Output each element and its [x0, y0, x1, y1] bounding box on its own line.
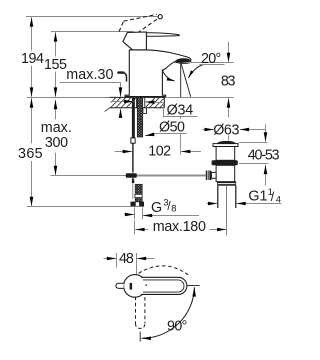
plan view small dot [145, 284, 147, 286]
svg-text:G1: G1 [248, 189, 267, 205]
waste side knob (knurled) [206, 171, 212, 180]
max.180 left extension line [134, 220, 136, 234]
thin gray hose line to nut [132, 183, 134, 199]
dimension 48 left extension [116, 253, 118, 268]
waste tail pipe [218, 186, 236, 208]
dimension max.300 upper segment with up arrow [55, 100, 57, 120]
handle axis reference line right [187, 285, 200, 287]
deck hole edges [137, 97, 145, 107]
dimension 155 lower segment with down arrow at deck [55, 72, 57, 97]
20 deg arc arrow [162, 69, 175, 81]
shank mounting nut right side [143, 108, 147, 114]
rod clamp at crossing [126, 173, 137, 178]
svg-text:300: 300 [45, 135, 68, 151]
plan view handle stadium inner [143, 280, 184, 292]
wire: deck top extension line right (y=97) [164, 97, 233, 99]
pop-up waste locking ring (dark band) [212, 160, 238, 165]
deck hatching left of shank [111, 98, 136, 108]
dimension 48 right extension [136, 253, 138, 275]
wire: deck top extension line left (y=97.4) [27, 97, 110, 99]
svg-text:90°: 90° [167, 319, 187, 335]
handle lever (solid, filled) [134, 33, 179, 37]
dashed handle rotated 90 left edge [135, 297, 137, 324]
svg-text:40-53: 40-53 [248, 148, 280, 164]
deck cross-section bottom line [110, 107, 165, 109]
deck cross-section top line [110, 96, 165, 98]
dashed handle rotated 90 end cap [136, 324, 145, 329]
dimension 48 left arrow [104, 258, 112, 260]
leader max.30 with bend and down arrow to deck top [60, 83, 121, 89]
dimension max.180 right arrow (pointing right) [210, 229, 222, 231]
leader O50 underline and arrow to shank bottom [150, 134, 186, 135]
dimension max.180 left arrow (pointing left) [140, 229, 149, 231]
aerator level extension line [186, 62, 234, 64]
svg-text:8: 8 [171, 203, 176, 214]
dimension 102 left arrow at rod [115, 151, 128, 153]
dimension 194 upper segment with up arrow [31, 17, 33, 50]
dimension max.30 lower up-arrow at deck bottom [120, 109, 122, 118]
pop-up waste upper body [216, 147, 235, 161]
dimension 102 right arrow at spout reference [186, 151, 201, 153]
label O50 white backing [157, 119, 187, 133]
hose end nut G3/8 [131, 202, 145, 207]
dashed raised lever bottom edge [127, 19, 158, 41]
plan view boss circle [124, 275, 147, 298]
hose fitting square below shank [131, 138, 135, 143]
svg-text:Ø63: Ø63 [213, 122, 239, 138]
rod lower stub and end stop [132, 178, 134, 183]
90 deg arc with arrows both ends [142, 287, 195, 338]
hose crimp ring (white band) [135, 194, 142, 197]
svg-text:365: 365 [18, 146, 43, 162]
20 deg vertical reference line from aerator [180, 63, 182, 97]
waste centerline down [226, 186, 228, 236]
hose nut extension lines [135, 207, 143, 219]
svg-text:/: / [271, 190, 275, 204]
dimension 155 upper segment with up arrow [55, 32, 57, 56]
plan view handle stadium outer [141, 277, 187, 294]
dimension 83 upper stub with down arrow [228, 42, 230, 62]
pop-up waste lower body [216, 165, 235, 181]
dimension O63 right arrow [244, 129, 265, 131]
dimension G3/8 right arrow with underline tail [147, 215, 199, 217]
pull rod below shank [132, 143, 134, 172]
pop-up waste plug (dark lens) [217, 141, 236, 145]
extension line locking ring [239, 163, 269, 165]
dashed raised lever left edge [119, 21, 124, 31]
dimension G3/8 left arrow [126, 214, 131, 216]
wire: rod-level extension line y=175.5 (gray, joins horizontal rod) [51, 175, 126, 177]
gray horizontal actuating rod to waste [126, 174, 206, 176]
waste coupling nut (dark) [217, 181, 236, 185]
aerator (dark lens at spout tip) [175, 58, 190, 62]
svg-text:max.180: max.180 [153, 219, 206, 235]
pull rod hook [124, 73, 127, 82]
pull rod (thick) from deck to fitting [132, 98, 135, 138]
dimension 40-53 upper arrow (down to flange top) [265, 124, 267, 141]
opposing thread arrow at tail pipe left [207, 203, 214, 205]
label O34 white backing [165, 103, 195, 116]
svg-text:102: 102 [148, 144, 171, 160]
dimension O63 left arrow [203, 129, 210, 131]
svg-text:194: 194 [21, 51, 44, 67]
svg-text:155: 155 [44, 57, 67, 73]
hose braid end [135, 184, 142, 202]
threaded shank through deck [137, 97, 142, 137]
leader G1 1/4 with left arrow to tail pipe [240, 203, 281, 205]
svg-text:48: 48 [119, 251, 134, 267]
dimension 48 right arrow [141, 258, 155, 260]
pop-up waste flange [213, 144, 238, 147]
dashed raised lever tip circle [158, 15, 162, 19]
deck hatching right of shank [146, 98, 164, 108]
wire: extension line top (handle raised tip level y=16.3) [26, 16, 159, 18]
plan view boss slot (dark) [130, 283, 133, 290]
pop-up pull rod knob behind faucet [118, 71, 123, 73]
dashed handle rotated 90 right edge [144, 297, 146, 324]
dashed swing curve above handle [139, 266, 191, 277]
20 deg slant line [181, 63, 191, 97]
label O63 white backing [212, 121, 242, 135]
waste knob stem [211, 172, 216, 178]
pop-up waste centerline with up arrow at deck [228, 122, 230, 141]
deck break tick left end [105, 108, 110, 112]
svg-text:max.30: max.30 [66, 67, 113, 83]
deck right edge [163, 97, 165, 107]
svg-text:83: 83 [221, 74, 236, 90]
extension line flange top [239, 142, 268, 144]
svg-text:20°: 20° [201, 51, 221, 67]
wire: extension line lever level y=31.4 [51, 31, 134, 33]
svg-text:G: G [151, 200, 162, 216]
dashed boss rotated edge [138, 33, 146, 44]
leader O34 underline and arrow to shank [156, 102, 198, 116]
dimension O34 left arrow at deck hole [111, 101, 134, 103]
dimension 365 lower segment with down arrow [31, 161, 33, 206]
handle boss [123, 32, 146, 50]
dimension max.300 lower segment with down arrow [55, 153, 57, 175]
wire: bottom extension line y=206.9 [27, 206, 131, 208]
dimension 194 lower segment with down arrow at deck [31, 66, 33, 97]
20 deg leader arrow from label [188, 64, 204, 78]
vertical reference line below deck (through labels) [180, 108, 182, 155]
svg-text:max.: max. [41, 120, 72, 136]
vertical reference below dashed handle [139, 332, 141, 342]
dimension 40-53 lower arrow (up to ring) [265, 165, 267, 186]
plan view pull rod knob [116, 283, 124, 288]
label 20 deg underline [200, 64, 225, 66]
dimension 365 upper segment with up arrow (hourglass at deck) [31, 98, 33, 143]
faucet body with spout and base [125, 50, 191, 97]
dashed raised lever top edge [124, 14, 157, 21]
